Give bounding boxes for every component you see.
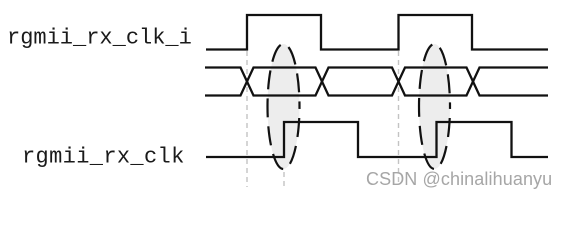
svg-text:CSDN @chinalihuanyu: CSDN @chinalihuanyu <box>366 169 552 189</box>
guide line at second sampling point x=435 <box>434 46 436 170</box>
guide line at first clock edge x=247 <box>246 51 248 187</box>
bus data waveform line B (bottom-start) <box>205 68 548 96</box>
guide line at second clock edge x=398.5 <box>398 51 400 183</box>
signal rgmii_rx_clk_i waveform <box>206 15 548 50</box>
highlight ellipse 2 fill <box>419 44 450 169</box>
highlight ellipse 1 fill <box>268 44 300 169</box>
svg-text:rgmii_rx_clk_i: rgmii_rx_clk_i <box>7 26 192 51</box>
guide line at sampling point x=284 <box>283 46 285 190</box>
signal rgmii_rx_clk waveform <box>206 122 548 157</box>
bus data waveform line A (top-start) <box>205 68 548 96</box>
highlight ellipse 1 dashed outline <box>268 44 300 169</box>
highlight ellipse 2 dashed outline <box>419 44 450 169</box>
svg-text:rgmii_rx_clk: rgmii_rx_clk <box>22 145 185 170</box>
